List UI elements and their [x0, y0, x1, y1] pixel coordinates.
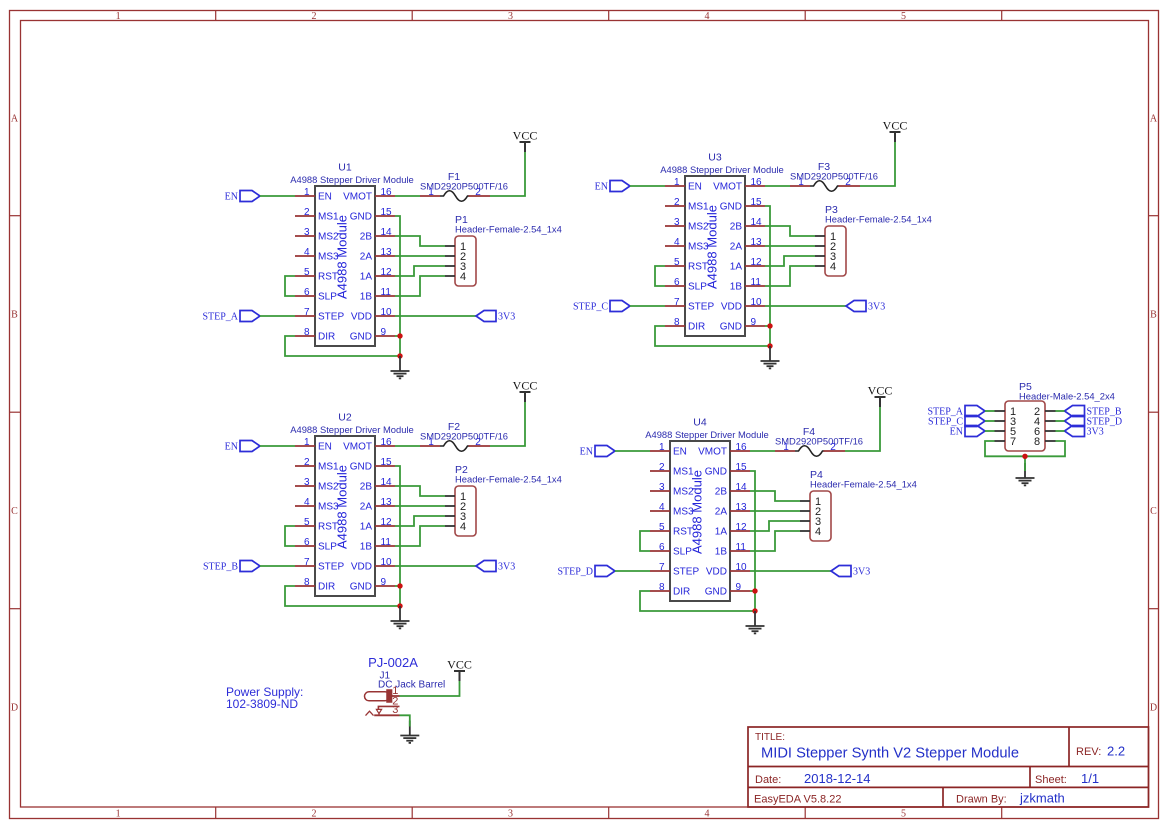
power flag VCC (U3) [883, 119, 908, 143]
wire U4.10 to 3V3 [750, 570, 831, 572]
svg-text:EN: EN [595, 182, 608, 193]
U2 pin 8 DIR [295, 577, 335, 593]
svg-text:1: 1 [798, 177, 804, 188]
svg-text:jzkmath: jzkmath [1019, 791, 1065, 806]
U3 pin 6 SLP [665, 277, 707, 293]
svg-text:7: 7 [659, 562, 665, 573]
op-amp-style IC U1 A4988 Stepper Driver Module body [315, 186, 375, 346]
U2 pin 11 1B [360, 537, 395, 553]
svg-text:7: 7 [1010, 436, 1016, 448]
svg-text:13: 13 [736, 502, 748, 513]
svg-text:4: 4 [304, 497, 310, 508]
svg-text:14: 14 [751, 217, 763, 228]
svg-text:9: 9 [736, 582, 742, 593]
P1 pin 1 [445, 241, 466, 253]
U1 pin 6 SLP [295, 287, 337, 303]
svg-text:102-3809-ND: 102-3809-ND [226, 697, 298, 711]
J1 pin 3 [374, 704, 399, 716]
wire U2.11 1B to P2.4 [395, 526, 445, 546]
net flag EN (U2) [225, 441, 260, 453]
svg-text:A4988 Stepper Driver Module: A4988 Stepper Driver Module [645, 429, 769, 440]
svg-text:10: 10 [751, 297, 763, 308]
title block outline [748, 727, 1149, 807]
svg-text:STEP: STEP [318, 562, 344, 573]
svg-text:11: 11 [381, 537, 392, 548]
U4 pin 8 DIR [650, 582, 690, 598]
svg-text:1A: 1A [360, 522, 373, 533]
wire U3.13 2A to P3.2 [765, 245, 815, 247]
header connector P3 Header-Female-2.54_1x4 body [825, 226, 846, 276]
svg-text:STEP: STEP [688, 302, 714, 313]
header connector P4 Header-Female-2.54_1x4 body [810, 491, 831, 541]
U4 pin 6 SLP [650, 542, 692, 558]
wire P5.2 to STEP_B [1056, 410, 1065, 412]
net flag 3V3 (U2) [476, 561, 515, 573]
svg-text:STEP: STEP [318, 312, 344, 323]
svg-text:1: 1 [428, 437, 434, 448]
U3 pin 8 DIR [665, 317, 705, 333]
svg-text:5: 5 [901, 11, 906, 22]
U2 pin 4 MS3 [295, 497, 339, 513]
svg-text:3: 3 [674, 217, 680, 228]
svg-text:10: 10 [381, 307, 393, 318]
net flag STEP_A (P5 pin 1) [927, 406, 985, 418]
svg-text:1B: 1B [715, 547, 728, 558]
svg-text:13: 13 [381, 497, 393, 508]
svg-text:GND: GND [350, 462, 372, 473]
wire U4.13 2A to P4.2 [750, 510, 800, 512]
U1 pin 16 VMOT [343, 187, 395, 203]
wire U1.11 1B to P1.4 [395, 276, 445, 296]
svg-text:11: 11 [381, 287, 392, 298]
U1 pin 14 2B [360, 227, 395, 243]
svg-text:SLP: SLP [318, 292, 337, 303]
svg-text:Header-Female-2.54_1x4: Header-Female-2.54_1x4 [455, 474, 562, 485]
P3 pin 1 [815, 231, 836, 243]
P1 pin 2 [445, 251, 466, 263]
wire U3.12 1A to P3.3 [765, 256, 815, 266]
svg-text:GND: GND [720, 202, 742, 213]
wire U3 GND rail [765, 206, 770, 346]
svg-text:GND: GND [350, 582, 372, 593]
power flag VCC (J1) [447, 658, 472, 682]
svg-text:2: 2 [845, 177, 851, 188]
svg-text:1A: 1A [360, 272, 373, 283]
svg-text:DIR: DIR [318, 582, 335, 593]
net flag EN (U4) [580, 446, 615, 458]
U1 pin 15 GND [350, 207, 395, 223]
U4 pin 9 GND [705, 582, 750, 598]
U1 pin 11 1B [360, 287, 395, 303]
U2 pin 15 GND [350, 457, 395, 473]
svg-text:8: 8 [304, 327, 310, 338]
fuse F3 SMD2920P500TF/16 [790, 161, 878, 191]
header connector P5 Header-Male-2.54_2x4 body [1005, 401, 1045, 451]
svg-text:REV:: REV: [1076, 746, 1101, 758]
svg-text:2A: 2A [730, 242, 743, 253]
U3 pin 2 MS1 [665, 197, 709, 213]
junction U4 pin9/GND rail [752, 588, 757, 593]
U3 pin 4 MS3 [665, 237, 709, 253]
svg-text:5: 5 [901, 809, 906, 820]
svg-text:16: 16 [381, 187, 393, 198]
wire U1.14 2B to P1.1 [395, 236, 445, 246]
svg-text:STEP_C: STEP_C [573, 302, 608, 313]
svg-text:Header-Female-2.54_1x4: Header-Female-2.54_1x4 [810, 479, 917, 490]
U2 pin 9 GND [350, 577, 395, 593]
U1 pin 1 EN [295, 187, 332, 203]
svg-text:3V3: 3V3 [1087, 427, 1104, 438]
P1 pin 4 [445, 271, 466, 283]
svg-text:12: 12 [381, 517, 393, 528]
header connector P2 Header-Female-2.54_1x4 body [455, 486, 476, 536]
svg-text:STEP_D: STEP_D [557, 567, 593, 578]
U3 pin 9 GND [720, 317, 765, 333]
wire U1 RST-SLP loop [285, 276, 295, 296]
svg-text:2: 2 [674, 197, 680, 208]
net flag 3V3 (P5 pin 6) [1065, 426, 1104, 438]
net flag STEP_B (P5 pin 2) [1065, 406, 1122, 418]
junction P5 GND [1022, 454, 1027, 459]
wire EN to U2.1 [260, 445, 295, 447]
wire F2.2 to VCC [490, 402, 525, 446]
wire U2 DIR to GND rail [285, 586, 400, 606]
svg-text:MS2: MS2 [318, 482, 339, 493]
svg-text:EN: EN [688, 182, 702, 193]
svg-text:1: 1 [783, 442, 789, 453]
U4 pin 16 VMOT [698, 442, 750, 458]
U2 pin 10 VDD [351, 557, 395, 573]
wire U1.13 2A to P1.2 [395, 255, 445, 257]
svg-text:10: 10 [736, 562, 748, 573]
svg-text:D: D [1150, 703, 1157, 714]
svg-text:MS3: MS3 [318, 502, 339, 513]
wire U3 DIR to GND rail [655, 326, 770, 346]
U2 pin 3 MS2 [295, 477, 339, 493]
U4 pin 1 EN [650, 442, 687, 458]
U3 pin 15 GND [720, 197, 765, 213]
svg-text:GND: GND [350, 332, 372, 343]
svg-text:VDD: VDD [721, 302, 742, 313]
U4 pin 2 MS1 [650, 462, 694, 478]
wire P5.4 to STEP_D [1056, 420, 1065, 422]
U4 pin 15 GND [705, 462, 750, 478]
svg-text:3V3: 3V3 [853, 567, 870, 578]
wire U1.12 1A to P1.3 [395, 266, 445, 276]
svg-text:Sheet:: Sheet: [1035, 774, 1067, 786]
svg-text:U3: U3 [708, 152, 722, 164]
wire F1.2 to VCC [490, 152, 525, 196]
U1 pin 4 MS3 [295, 247, 339, 263]
svg-text:MS2: MS2 [318, 232, 339, 243]
svg-text:5: 5 [674, 257, 680, 268]
svg-text:EN: EN [225, 442, 238, 453]
svg-text:RST: RST [673, 527, 693, 538]
svg-text:15: 15 [736, 462, 748, 473]
J1 pin 2 (switch contact) [378, 696, 399, 709]
svg-text:2: 2 [304, 207, 310, 218]
svg-text:MS2: MS2 [688, 222, 709, 233]
U2 pin 6 SLP [295, 537, 337, 553]
U1 pin 2 MS1 [295, 207, 339, 223]
wire U1 DIR to GND rail [285, 336, 400, 356]
svg-text:2B: 2B [360, 482, 373, 493]
svg-text:1: 1 [304, 187, 310, 198]
svg-text:14: 14 [736, 482, 748, 493]
wire J1.1 to VCC [400, 681, 460, 696]
junction U1 pin9/GND rail [397, 333, 402, 338]
wire U2.16 to F2.1 [395, 445, 420, 447]
svg-text:5: 5 [659, 522, 665, 533]
svg-text:RST: RST [688, 262, 708, 273]
svg-text:DIR: DIR [688, 322, 705, 333]
svg-text:3: 3 [304, 477, 310, 488]
wire U2 GND rail [395, 466, 400, 606]
svg-text:14: 14 [381, 477, 393, 488]
wire U1 GND rail [395, 216, 400, 356]
wire U3.10 to 3V3 [765, 305, 846, 307]
net flag EN (U1) [225, 191, 260, 203]
svg-text:15: 15 [751, 197, 763, 208]
svg-text:1B: 1B [730, 282, 743, 293]
svg-text:4: 4 [659, 502, 665, 513]
frame row tick marks left [10, 216, 21, 609]
wire U2.9 to GND rail [395, 585, 400, 587]
svg-text:RST: RST [318, 522, 338, 533]
P3 pin 4 [815, 261, 836, 273]
svg-text:MS1: MS1 [318, 462, 339, 473]
U4 pin 4 MS3 [650, 502, 694, 518]
U4 pin 7 STEP [650, 562, 699, 578]
wire EN to U4.1 [615, 450, 650, 452]
svg-text:A: A [1150, 114, 1158, 125]
frame column tick marks bottom [216, 807, 1002, 819]
svg-text:RST: RST [318, 272, 338, 283]
svg-text:4: 4 [705, 11, 710, 22]
op-amp-style IC U4 A4988 Stepper Driver Module body [670, 441, 730, 601]
svg-text:7: 7 [304, 307, 310, 318]
svg-text:A4988 Stepper Driver Module: A4988 Stepper Driver Module [660, 164, 784, 175]
P5 pin 7 [995, 436, 1017, 448]
svg-text:4: 4 [815, 526, 821, 538]
svg-text:C: C [1150, 506, 1157, 517]
svg-text:1B: 1B [360, 542, 373, 553]
J1 switch zigzag mark [366, 711, 374, 715]
svg-text:VCC: VCC [513, 129, 538, 143]
svg-text:C: C [11, 506, 18, 517]
power flag VCC (U1) [513, 129, 538, 153]
net flag STEP_B (U2) [203, 561, 260, 573]
svg-text:MS3: MS3 [673, 507, 694, 518]
U2 pin 1 EN [295, 437, 332, 453]
svg-text:A: A [11, 114, 19, 125]
ground symbol (P5) [1016, 463, 1035, 485]
svg-text:D: D [11, 703, 18, 714]
svg-text:1: 1 [428, 187, 434, 198]
svg-text:TITLE:: TITLE: [755, 732, 785, 743]
svg-text:9: 9 [381, 327, 387, 338]
svg-text:SLP: SLP [673, 547, 692, 558]
U3 pin 10 VDD [721, 297, 765, 313]
svg-text:EN: EN [673, 447, 687, 458]
junction U4 GND rail/DIR loop [752, 608, 757, 613]
wire P5 GND drop [1024, 456, 1026, 471]
svg-text:1A: 1A [715, 527, 728, 538]
svg-text:EN: EN [318, 442, 332, 453]
svg-text:10: 10 [381, 557, 393, 568]
op-amp-style IC U3 A4988 Stepper Driver Module body [685, 176, 745, 336]
frame column numbers top [116, 11, 906, 22]
svg-text:GND: GND [705, 467, 727, 478]
svg-text:13: 13 [751, 237, 763, 248]
P1 pin 3 [445, 261, 466, 273]
svg-text:8: 8 [304, 577, 310, 588]
svg-text:1A: 1A [730, 262, 743, 273]
svg-text:11: 11 [751, 277, 762, 288]
svg-text:2B: 2B [715, 487, 728, 498]
svg-text:Header-Female-2.54_1x4: Header-Female-2.54_1x4 [455, 224, 562, 235]
svg-text:3: 3 [508, 11, 513, 22]
svg-text:8: 8 [659, 582, 665, 593]
wire F3.2 to VCC [860, 142, 895, 186]
svg-text:MS2: MS2 [673, 487, 694, 498]
U3 pin 16 VMOT [713, 177, 765, 193]
svg-text:1: 1 [674, 177, 680, 188]
svg-text:2: 2 [312, 809, 317, 820]
svg-text:13: 13 [381, 247, 393, 258]
wire P5.7 to GND [985, 441, 1025, 456]
U1 pin 5 RST [295, 267, 338, 283]
svg-text:EN: EN [580, 447, 593, 458]
U2 pin 2 MS1 [295, 457, 339, 473]
svg-text:7: 7 [674, 297, 680, 308]
net flag EN (P5 pin 5) [950, 426, 985, 438]
svg-text:VMOT: VMOT [713, 182, 742, 193]
junction U2 pin9/GND rail [397, 583, 402, 588]
svg-text:2A: 2A [360, 252, 373, 263]
U1 pin 3 MS2 [295, 227, 339, 243]
svg-text:3: 3 [304, 227, 310, 238]
wire F4.2 to VCC [845, 407, 880, 451]
svg-text:U4: U4 [693, 417, 707, 429]
svg-text:MS3: MS3 [318, 252, 339, 263]
svg-text:2.2: 2.2 [1107, 744, 1125, 759]
wire U4.12 1A to P4.3 [750, 521, 800, 531]
svg-text:STEP_B: STEP_B [203, 562, 238, 573]
svg-text:1: 1 [304, 437, 310, 448]
svg-text:3V3: 3V3 [498, 312, 515, 323]
svg-text:U1: U1 [338, 162, 352, 174]
wire U4.11 1B to P4.4 [750, 531, 800, 551]
fuse F2 SMD2920P500TF/16 [420, 421, 508, 451]
P5 pin 3 [995, 416, 1017, 428]
svg-text:12: 12 [751, 257, 763, 268]
ground symbol (U2) [391, 606, 410, 628]
svg-text:VCC: VCC [447, 658, 472, 672]
svg-text:14: 14 [381, 227, 393, 238]
net flag STEP_D (U4) [557, 566, 615, 578]
text note Power Supply: 102-3809-ND [226, 685, 303, 711]
svg-text:SLP: SLP [318, 542, 337, 553]
wire U2.10 to 3V3 [395, 565, 476, 567]
U3 pin 11 1B [730, 277, 765, 293]
svg-text:2: 2 [304, 457, 310, 468]
svg-text:B: B [1150, 310, 1157, 321]
P2 pin 1 [445, 491, 466, 503]
ground symbol (U1) [391, 356, 410, 378]
svg-text:7: 7 [304, 557, 310, 568]
svg-text:A4988 Stepper Driver Module: A4988 Stepper Driver Module [290, 424, 414, 435]
U3 pin 14 2B [730, 217, 765, 233]
header connector P1 Header-Female-2.54_1x4 body [455, 236, 476, 286]
wire STEP_A to P5.1 [985, 410, 995, 412]
ground symbol (J1) [400, 721, 419, 743]
U1 pin 9 GND [350, 327, 395, 343]
wire EN to U1.1 [260, 195, 295, 197]
U3 pin 12 1A [730, 257, 765, 273]
svg-text:1B: 1B [360, 292, 373, 303]
wire U4 GND rail [750, 471, 755, 611]
fuse F4 SMD2920P500TF/16 [775, 426, 863, 456]
wire U3.16 to F3.1 [765, 185, 790, 187]
wire U4 RST-SLP loop [640, 531, 650, 551]
U1 pin 8 DIR [295, 327, 335, 343]
U1 pin 10 VDD [351, 307, 395, 323]
svg-text:DC Jack Barrel: DC Jack Barrel [378, 680, 445, 691]
net flag 3V3 (U1) [476, 311, 515, 323]
svg-text:2B: 2B [730, 222, 743, 233]
svg-text:MS1: MS1 [673, 467, 694, 478]
U3 pin 1 EN [665, 177, 702, 193]
U2 pin 16 VMOT [343, 437, 395, 453]
wire EN to P5.5 [985, 430, 995, 432]
svg-text:MIDI Stepper Synth V2 Stepper: MIDI Stepper Synth V2 Stepper Module [761, 746, 1019, 762]
svg-text:STEP: STEP [673, 567, 699, 578]
wire J1.3 to GND [400, 715, 410, 726]
U1 pin 13 2A [360, 247, 395, 263]
net flag STEP_A (U1) [202, 311, 260, 323]
svg-text:15: 15 [381, 207, 393, 218]
frame row tick marks right [1149, 216, 1159, 609]
svg-text:MS1: MS1 [688, 202, 709, 213]
wire U3.9 to GND rail [765, 325, 770, 327]
svg-text:4: 4 [674, 237, 680, 248]
ground symbol (U3) [761, 346, 780, 368]
svg-text:15: 15 [381, 457, 393, 468]
svg-text:2: 2 [475, 187, 481, 198]
svg-text:2: 2 [312, 11, 317, 22]
svg-text:VDD: VDD [351, 312, 372, 323]
svg-text:9: 9 [751, 317, 757, 328]
net flag 3V3 (U3) [846, 301, 885, 313]
J1 switch arrow mark [376, 709, 381, 715]
svg-text:4: 4 [304, 247, 310, 258]
svg-text:VCC: VCC [883, 119, 908, 133]
svg-text:5: 5 [304, 267, 310, 278]
wire STEP_D to U4.7 [615, 570, 650, 572]
wire U2.14 2B to P2.1 [395, 486, 445, 496]
U1 pin 12 1A [360, 267, 395, 283]
wire STEP_A to U1.7 [260, 315, 295, 317]
svg-text:MS1: MS1 [318, 212, 339, 223]
net flag STEP_C (P5 pin 3) [928, 416, 985, 428]
svg-text:VMOT: VMOT [698, 447, 727, 458]
U4 pin 5 RST [650, 522, 693, 538]
wire U3.11 1B to P3.4 [765, 266, 815, 286]
wire U1.16 to F1.1 [395, 195, 420, 197]
power flag VCC (U4) [868, 384, 893, 408]
svg-text:4: 4 [830, 261, 836, 273]
